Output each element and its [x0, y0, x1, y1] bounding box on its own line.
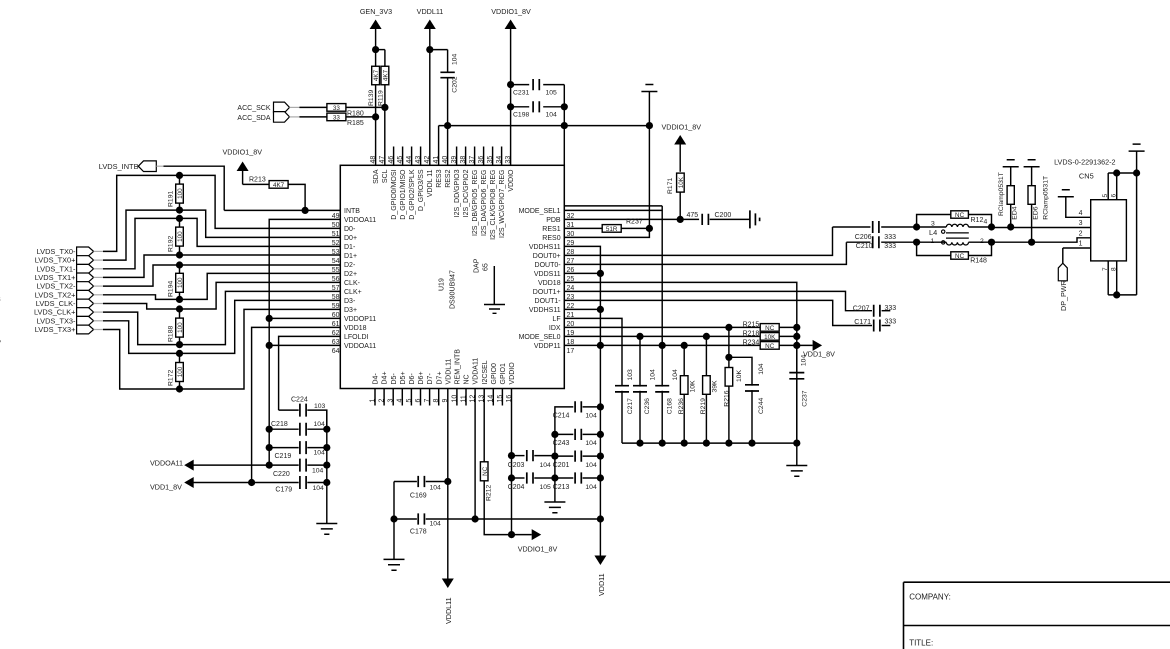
- svg-text:VDDOA11: VDDOA11: [344, 217, 376, 224]
- svg-text:36: 36: [478, 156, 485, 164]
- pin 6 D6+ (bottom): [420, 389, 422, 406]
- pin 38 I2S_DC/GPIO2 (top): [465, 147, 467, 166]
- svg-text:CLK-: CLK-: [344, 280, 361, 287]
- svg-text:C178: C178: [410, 529, 427, 536]
- svg-text:33: 33: [333, 105, 341, 112]
- wire LVDS_TX0- net: [103, 175, 340, 251]
- svg-text:LVDS_TX3-: LVDS_TX3-: [37, 316, 76, 325]
- pin 39 I2S_DD/GPIO3 (top): [456, 147, 458, 166]
- resistor R192 100: [179, 218, 181, 227]
- svg-text:TITLE:: TITLE:: [909, 639, 933, 648]
- svg-text:VDDIO1_8V: VDDIO1_8V: [223, 148, 263, 157]
- svg-text:103: 103: [314, 403, 326, 410]
- resistor R237 51R: [564, 227, 602, 229]
- svg-text:V: V: [0, 339, 1, 348]
- svg-text:D_GPIO0/MOSI: D_GPIO0/MOSI: [391, 169, 398, 219]
- pin CN5-1 wire: [1063, 247, 1091, 249]
- svg-text:104: 104: [313, 485, 325, 492]
- wire VDD18 rail (pin 62): [252, 327, 341, 482]
- ground (bank rail): [796, 443, 798, 465]
- svg-text:35: 35: [487, 156, 494, 164]
- svg-text:RES0: RES0: [542, 235, 560, 242]
- svg-text:D7+: D7+: [436, 371, 443, 384]
- svg-text:VDDL 11: VDDL 11: [427, 169, 434, 197]
- svg-text:47: 47: [379, 156, 386, 164]
- svg-text:C198: C198: [513, 112, 529, 119]
- svg-text:104: 104: [540, 462, 552, 469]
- resistor R212 NC: [483, 389, 485, 463]
- svg-text:VDDP11: VDDP11: [534, 343, 561, 350]
- node VDDS11 junction: [597, 270, 604, 277]
- svg-text:R192: R192: [167, 236, 174, 252]
- svg-text:104: 104: [585, 440, 597, 447]
- svg-text:VDDOA11: VDDOA11: [344, 343, 376, 350]
- svg-text:LVDS_TX0-: LVDS_TX0-: [37, 247, 76, 256]
- svg-text:8: 8: [433, 399, 440, 403]
- wire VDDL11 to pin 42: [429, 50, 431, 166]
- svg-text:2: 2: [1079, 231, 1083, 238]
- pin CN5-4 wire to gnd: [1066, 197, 1091, 217]
- svg-text:4: 4: [397, 399, 404, 403]
- pin 35 I2S_CLK/GPIO8_REG (top): [492, 147, 494, 166]
- svg-text:PDB: PDB: [546, 217, 561, 224]
- svg-text:R194: R194: [167, 281, 174, 297]
- pin 45 D_GPIO1/MISO (top): [402, 147, 404, 166]
- svg-text:1: 1: [1079, 241, 1083, 248]
- svg-text:46: 46: [388, 156, 395, 164]
- svg-text:L4: L4: [929, 228, 937, 237]
- svg-text:VDD1_8V: VDD1_8V: [803, 350, 835, 359]
- pin 2 D4+ (bottom): [383, 389, 385, 406]
- node R219 junction: [703, 333, 710, 340]
- svg-text:4: 4: [1079, 210, 1083, 217]
- pin 46 D_GPIO0/MOSI (top): [393, 147, 395, 166]
- wire VDDHS11/VDDS11/VDDP11 bus: [564, 246, 600, 555]
- node bus C214 junction: [597, 403, 604, 410]
- svg-text:38: 38: [460, 156, 467, 164]
- svg-text:DOUT1-: DOUT1-: [535, 298, 562, 305]
- svg-text:LVDS_TX3+: LVDS_TX3+: [35, 325, 76, 334]
- svg-text:DP_PWR: DP_PWR: [1059, 280, 1068, 311]
- svg-text:4K7: 4K7: [373, 69, 380, 81]
- node bank rail / gnd junction: [793, 440, 800, 447]
- svg-text:10K: 10K: [690, 380, 697, 393]
- svg-text:ACC_SCK: ACC_SCK: [237, 105, 270, 112]
- svg-text:D3+: D3+: [344, 307, 357, 314]
- svg-text:43: 43: [415, 156, 422, 164]
- ground (under C178): [393, 519, 395, 559]
- svg-text:VDDIO1_8V: VDDIO1_8V: [662, 123, 702, 132]
- wire VDDOA11 rail (pin 50): [269, 219, 340, 465]
- wire C214 cluster to ground: [554, 434, 556, 502]
- svg-text:I2S_DB/GPIO5_REG: I2S_DB/GPIO5_REG: [472, 170, 479, 237]
- wire LVDS_CLK- net: [103, 282, 340, 309]
- resistor R188 100: [179, 309, 181, 318]
- svg-text:VDD18: VDD18: [344, 325, 367, 332]
- svg-text:37: 37: [469, 156, 476, 164]
- svg-text:MODE_SEL0: MODE_SEL0: [519, 334, 561, 341]
- svg-text:100: 100: [177, 366, 184, 377]
- svg-text:GPIO1: GPIO1: [500, 363, 507, 385]
- wire MODE_SEL1 net: [564, 205, 662, 207]
- svg-text:C202: C202: [452, 76, 459, 92]
- svg-text:I2CSEL: I2CSEL: [482, 360, 489, 384]
- power net VDDL11 (bottom arrow): [442, 579, 454, 589]
- ground (cap stack): [316, 524, 337, 535]
- node SCL pull-up junction: [381, 104, 388, 111]
- svg-text:VDDL11: VDDL11: [417, 7, 444, 16]
- svg-text:VDDHS11: VDDHS11: [529, 244, 561, 251]
- svg-text:LVDS-0-2291362-2: LVDS-0-2291362-2: [1054, 157, 1115, 166]
- svg-text:LVDS_TX2-: LVDS_TX2-: [37, 282, 76, 291]
- svg-text:104: 104: [314, 421, 326, 428]
- svg-text:R237: R237: [626, 218, 643, 225]
- node R188 bottom junction: [176, 341, 183, 348]
- svg-text:104: 104: [585, 484, 597, 491]
- wire L4 to CN5 pin2: [992, 238, 1091, 242]
- svg-text:GPIO0: GPIO0: [491, 363, 498, 385]
- svg-text:104: 104: [430, 521, 442, 528]
- pin 3 D5- (bottom): [392, 389, 394, 406]
- wire DOUT0- net: [564, 242, 846, 264]
- svg-text:44: 44: [406, 156, 413, 164]
- node C236 junction: [636, 333, 643, 340]
- resistor R171 10K: [679, 145, 681, 172]
- svg-text:VDDOA11: VDDOA11: [150, 459, 183, 468]
- svg-text:I2S_DC/GPIO2: I2S_DC/GPIO2: [463, 169, 470, 217]
- svg-text:LVDS_TX2+: LVDS_TX2+: [35, 290, 76, 299]
- svg-text:11: 11: [460, 395, 467, 402]
- svg-text:C210: C210: [856, 243, 873, 250]
- svg-text:VDDIO1_8V: VDDIO1_8V: [491, 7, 531, 16]
- wire LFOLDI to C224: [279, 336, 341, 410]
- node IDX/R216 junction: [725, 324, 732, 331]
- svg-text:100: 100: [177, 188, 184, 199]
- svg-text:1: 1: [369, 399, 376, 403]
- svg-text:R212: R212: [485, 485, 492, 501]
- svg-text:C206: C206: [855, 234, 872, 241]
- pin 44 D_GPIO2/SPLK (top): [411, 147, 413, 166]
- svg-text:DAP: DAP: [474, 258, 481, 273]
- svg-text:VDDL11: VDDL11: [445, 358, 452, 384]
- svg-text:104: 104: [314, 450, 326, 457]
- svg-text:ED6: ED6: [1032, 206, 1039, 219]
- svg-text:VDDOP11: VDDOP11: [344, 316, 376, 323]
- svg-text:45: 45: [397, 156, 404, 164]
- svg-text:R12: R12: [971, 217, 984, 224]
- resistor R180 33: [299, 106, 327, 108]
- node R191 bottom junction: [176, 207, 183, 214]
- svg-text:LVDS_CLK+: LVDS_CLK+: [34, 308, 76, 317]
- svg-text:2: 2: [379, 399, 386, 403]
- capacitor C231 105: [507, 81, 514, 88]
- svg-text:MODE_SEL1: MODE_SEL1: [519, 208, 561, 215]
- resistor R185 33: [299, 116, 327, 118]
- svg-text:C204: C204: [508, 484, 525, 491]
- svg-text:33: 33: [505, 156, 512, 164]
- svg-text:40: 40: [442, 156, 449, 164]
- svg-text:R148: R148: [970, 258, 987, 265]
- svg-text:D6+: D6+: [418, 371, 425, 384]
- svg-text:D2-: D2-: [344, 262, 356, 269]
- svg-text:10K: 10K: [736, 369, 743, 382]
- svg-text:R185: R185: [347, 120, 364, 127]
- svg-text:RClamp0531T: RClamp0531T: [1042, 176, 1049, 220]
- svg-text:U19: U19: [439, 278, 446, 291]
- svg-text:VDDL11: VDDL11: [444, 597, 453, 624]
- svg-text:14: 14: [488, 395, 495, 403]
- svg-text:104: 104: [758, 363, 765, 375]
- wire LVDS_TX2- net: [103, 265, 340, 286]
- svg-text:NC: NC: [765, 343, 775, 350]
- svg-text:DS90UB947: DS90UB947: [450, 270, 457, 309]
- svg-text:3: 3: [0, 295, 1, 304]
- wire RES0 loop: [564, 228, 649, 237]
- svg-text:R191: R191: [167, 191, 174, 207]
- node L4 pin1 junction: [913, 239, 920, 246]
- svg-text:I2S_DD/GPIO3: I2S_DD/GPIO3: [454, 169, 461, 217]
- capacitor C178 104: [390, 515, 397, 522]
- svg-text:104: 104: [312, 468, 324, 475]
- svg-text:NC: NC: [482, 466, 489, 476]
- svg-text:VDDA11: VDDA11: [473, 358, 480, 385]
- svg-text:NC: NC: [955, 212, 965, 219]
- svg-text:R188: R188: [167, 326, 174, 342]
- svg-text:104: 104: [672, 369, 679, 381]
- svg-text:VDDIO: VDDIO: [509, 362, 516, 385]
- svg-text:105: 105: [546, 90, 558, 97]
- svg-text:333: 333: [884, 234, 896, 241]
- pin 15 GPIO1 (bottom): [501, 389, 503, 406]
- svg-text:104: 104: [546, 112, 558, 119]
- capacitor C198 104: [507, 103, 514, 110]
- svg-text:C244: C244: [758, 398, 765, 414]
- svg-text:39K: 39K: [711, 380, 718, 393]
- svg-text:100: 100: [177, 322, 184, 333]
- ground (DAP exposed pad): [493, 266, 495, 304]
- ground (top, flipped): [641, 85, 657, 92]
- svg-text:R234: R234: [743, 340, 760, 347]
- svg-text:5: 5: [406, 399, 413, 403]
- node VDDOP11 junction: [266, 315, 273, 322]
- wire LF to C217: [564, 318, 622, 385]
- svg-text:333: 333: [885, 319, 897, 326]
- node VDDOA11 pin64 junction: [266, 342, 273, 349]
- svg-text:D4+: D4+: [382, 371, 389, 384]
- pin 14 GPIO0 (bottom): [492, 389, 494, 406]
- svg-text:D6-: D6-: [409, 373, 416, 385]
- svg-text:D3-: D3-: [344, 298, 356, 305]
- svg-text:42: 42: [424, 156, 431, 164]
- node RES1/RES0 junction: [646, 225, 653, 232]
- svg-text:39: 39: [451, 156, 458, 164]
- node R192 top junction: [176, 215, 183, 222]
- svg-text:VDDS11: VDDS11: [534, 271, 561, 278]
- svg-text:4: 4: [984, 219, 988, 226]
- svg-text:64: 64: [332, 348, 340, 355]
- svg-text:VDDIO: VDDIO: [508, 169, 515, 192]
- node bus C213 junction: [597, 474, 604, 481]
- ground (CN5 pin4): [1058, 190, 1074, 197]
- capacitor C213 104: [551, 474, 558, 481]
- node ED4 junction: [1007, 223, 1014, 230]
- title block: [904, 582, 1170, 649]
- svg-text:R172: R172: [167, 370, 174, 386]
- wire L4 to CN5 pin3: [992, 227, 1091, 229]
- svg-text:REM_INTB: REM_INTB: [455, 349, 462, 385]
- svg-text:10K: 10K: [678, 176, 685, 188]
- svg-text:RES1: RES1: [542, 226, 560, 233]
- svg-text:51R: 51R: [606, 226, 618, 233]
- svg-text:ACC_SDA: ACC_SDA: [237, 115, 270, 122]
- svg-text:10: 10: [451, 395, 458, 403]
- svg-text:D5+: D5+: [400, 371, 407, 384]
- svg-text:D2+: D2+: [344, 271, 357, 278]
- svg-text:NC: NC: [955, 253, 965, 260]
- svg-text:104: 104: [800, 355, 807, 367]
- wire VDDL11 pin 9 column: [447, 389, 449, 579]
- pin 5 D6- (bottom): [410, 389, 412, 406]
- svg-text:104: 104: [452, 53, 459, 65]
- node GEN_3V3 junction: [372, 46, 379, 53]
- svg-text:54: 54: [332, 258, 340, 265]
- svg-text:DOUT0+: DOUT0+: [533, 253, 561, 260]
- svg-text:D0+: D0+: [344, 235, 357, 242]
- resistor R139 4K7: [372, 66, 380, 85]
- svg-text:65: 65: [483, 263, 490, 271]
- svg-text:C219: C219: [275, 453, 292, 460]
- svg-text:104: 104: [585, 412, 597, 419]
- svg-text:C168: C168: [667, 398, 674, 414]
- svg-text:NC: NC: [464, 374, 471, 384]
- svg-text:LVDS_TX1+: LVDS_TX1+: [35, 273, 76, 282]
- svg-text:D4-: D4-: [373, 373, 380, 385]
- svg-text:D7-: D7-: [427, 373, 434, 385]
- node INTB / R213 junction: [302, 207, 309, 214]
- node R192 bottom junction: [176, 251, 183, 258]
- wire DOUT0+ net: [564, 227, 832, 255]
- wire LVDS_TX1- net: [103, 218, 340, 268]
- svg-text:48: 48: [370, 156, 377, 164]
- svg-text:C237: C237: [802, 390, 809, 406]
- capacitor C169 104: [444, 478, 451, 485]
- svg-text:D0-: D0-: [344, 226, 356, 233]
- power net VDD11 (bottom arrow): [594, 556, 606, 566]
- svg-text:34: 34: [496, 156, 503, 164]
- node VDDHS11 junction: [597, 306, 604, 313]
- svg-text:NC: NC: [765, 325, 775, 332]
- svg-text:I2S_WC/GPIO7_REG: I2S_WC/GPIO7_REG: [499, 170, 506, 238]
- wire SCL to pin 47: [384, 107, 386, 165]
- svg-text:C169: C169: [410, 493, 427, 500]
- svg-text:D5-: D5-: [391, 373, 398, 385]
- node C168 junction: [659, 342, 666, 349]
- node R194 top junction: [176, 261, 183, 268]
- node bus C201 junction: [597, 453, 604, 460]
- svg-text:VDD11: VDD11: [597, 573, 606, 596]
- op IC U19 DS90UB947 body: [340, 165, 564, 388]
- svg-text:LVDS_TX0+: LVDS_TX0+: [35, 256, 76, 265]
- svg-text:D1-: D1-: [344, 244, 356, 251]
- wire LVDS_TX0+ net: [103, 210, 340, 260]
- svg-text:3: 3: [931, 220, 935, 227]
- node VDDIO pin16 junction: [508, 531, 515, 538]
- wire IDX row: [564, 326, 760, 328]
- svg-text:LVDS_INTB: LVDS_INTB: [99, 162, 139, 171]
- svg-text:ED4: ED4: [1011, 206, 1018, 219]
- svg-text:104: 104: [585, 462, 597, 469]
- svg-text:DOUT0-: DOUT0-: [535, 262, 562, 269]
- svg-text:RClamp0531T: RClamp0531T: [998, 172, 1005, 216]
- svg-text:C171: C171: [854, 319, 871, 326]
- wire LVDS_TX3+ net: [103, 309, 340, 389]
- svg-text:C236: C236: [644, 398, 651, 414]
- wire shield to ground: [1136, 152, 1138, 295]
- svg-text:333: 333: [884, 243, 896, 250]
- node L4 pin4 junction: [988, 223, 995, 230]
- node L4 pin3 junction: [913, 223, 920, 230]
- pin 37 I2S_DB/GPIO5_REG (top): [474, 147, 476, 166]
- resistor R194 100: [179, 265, 181, 273]
- node R191 top junction: [176, 172, 183, 179]
- wire LVDS_TX3- net: [103, 300, 340, 353]
- pin 11 NC (bottom): [465, 389, 467, 406]
- svg-text:SCL: SCL: [382, 169, 389, 183]
- pin 7 D7- (bottom): [429, 389, 431, 406]
- svg-text:SDA: SDA: [373, 169, 380, 184]
- svg-text:C207: C207: [853, 305, 870, 312]
- wire PDB net: [564, 218, 680, 220]
- node shield junction bottom: [1113, 291, 1120, 298]
- resistor R191 100: [179, 175, 181, 184]
- resistor R119 4K7: [381, 66, 389, 85]
- svg-text:104: 104: [650, 369, 657, 381]
- capacitor C204 105: [508, 474, 515, 481]
- node R216/C244 junction: [725, 354, 732, 361]
- power net VDDIO1_8V (bottom arrow): [512, 534, 532, 536]
- node R236 junction: [681, 342, 688, 349]
- node SDA pull-up junction: [372, 113, 379, 120]
- node R188 top junction: [176, 305, 183, 312]
- svg-text:I2S_CLK/GPIO8_REG: I2S_CLK/GPIO8_REG: [490, 170, 497, 240]
- node VDDL11 junction: [426, 46, 433, 53]
- svg-text:R215: R215: [743, 322, 760, 329]
- connector flag DP_PWR: [1058, 263, 1067, 281]
- svg-text:10K: 10K: [764, 334, 776, 341]
- pin 1 D4- (bottom): [374, 389, 376, 406]
- pin 4 D5+ (bottom): [401, 389, 403, 406]
- wire VDD18 net to VDD1_8V column: [564, 282, 797, 443]
- pin 36 I2S_DA/GPIO6_REG (top): [483, 147, 485, 166]
- svg-text:VDDIO1_8V: VDDIO1_8V: [518, 545, 558, 554]
- node L4 pin2 junction: [988, 239, 995, 246]
- node bus C178 junction: [597, 515, 604, 522]
- svg-text:C218: C218: [271, 421, 288, 428]
- svg-text:475: 475: [687, 212, 699, 219]
- wire LVDS_TX1+ net: [103, 255, 340, 277]
- svg-text:6: 6: [415, 399, 422, 403]
- wire C231/C198 common to gnd rail: [563, 85, 565, 126]
- svg-text:D_GPIO1/MISO: D_GPIO1/MISO: [400, 169, 407, 220]
- node ED6 junction: [1028, 239, 1035, 246]
- svg-text:INTB: INTB: [344, 208, 360, 215]
- wire LVDS_CLK+ net: [103, 291, 340, 344]
- ground (CN5 shield): [1129, 144, 1145, 151]
- svg-text:IDX: IDX: [549, 325, 561, 332]
- svg-text:104: 104: [430, 485, 442, 492]
- svg-text:C217: C217: [627, 398, 634, 414]
- svg-text:GEN_3V3: GEN_3V3: [360, 7, 392, 16]
